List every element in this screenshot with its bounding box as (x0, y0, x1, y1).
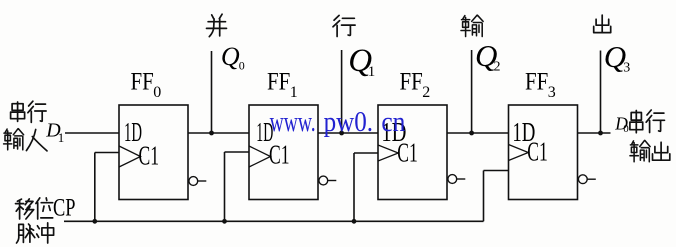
svg-text:C1: C1 (397, 137, 418, 167)
label CP (53, 194, 76, 221)
wire Q1 vertical tap (341, 50, 343, 133)
FF2 inverted output bubble (448, 175, 465, 184)
label 输 (output) (630, 141, 650, 162)
FF3 inverted output bubble (578, 175, 595, 184)
flip-flop FF0 box (119, 105, 188, 200)
node Q0 junction (209, 131, 214, 136)
label 行 (serial input) (28, 101, 46, 122)
FF2 clock edge-trigger triangle (378, 145, 398, 161)
label 并 (parallel) (207, 14, 227, 36)
label Q3 (604, 39, 631, 76)
wire FF1 Q to FF2 1D (318, 132, 378, 134)
FF3 clock edge-trigger triangle (509, 145, 529, 161)
label Q2 (475, 38, 501, 75)
node Q1 junction (339, 131, 344, 136)
FF2 pin label 1D (381, 117, 406, 147)
label 输 (461, 15, 483, 36)
svg-text:3: 3 (623, 60, 630, 75)
node CP junction 0 (92, 219, 97, 224)
node Q2 junction (469, 131, 474, 136)
FF2 pin label C1 (397, 137, 418, 167)
node CP junction 2 (352, 219, 357, 224)
FF1 pin label C1 (269, 140, 290, 170)
svg-text:FF: FF (525, 68, 548, 95)
FF0 inverted output bubble (189, 177, 206, 186)
svg-text:2: 2 (494, 60, 501, 75)
wire CP to FF0 C1 (95, 153, 119, 222)
svg-text:Q: Q (221, 42, 240, 71)
svg-text:C1: C1 (269, 140, 290, 170)
label 脉 (pulse) (17, 224, 35, 243)
FF1 pin label 1D (256, 117, 273, 147)
svg-text:0: 0 (153, 84, 161, 101)
label 行 (333, 15, 355, 36)
node Q3 junction (598, 131, 603, 136)
svg-text:pw0.: pw0. (324, 106, 374, 138)
svg-text:FF: FF (267, 68, 290, 95)
label D0 serial output pin (614, 114, 629, 135)
flip-flop FF3 box (509, 105, 578, 200)
svg-text:3: 3 (548, 84, 556, 101)
label 出 (594, 15, 611, 32)
FF0 pin label 1D (124, 117, 142, 147)
label 冲 (pulse) (37, 223, 54, 243)
FF1 inverted output bubble (319, 176, 336, 185)
FF3 pin label C1 (527, 136, 548, 166)
wire FF0 Q to FF1 1D (188, 132, 249, 134)
svg-text:cn: cn (381, 106, 405, 138)
svg-text:C1: C1 (527, 136, 548, 166)
svg-text:0: 0 (239, 58, 245, 72)
label FF3 (525, 68, 556, 101)
wire FF2 Q to FF3 1D (447, 132, 509, 134)
flip-flop FF2 box (378, 105, 447, 200)
wire FF3 Q to serial output D0 (578, 132, 611, 134)
label 入 (input) (26, 130, 47, 151)
FF3 pin label 1D (512, 117, 535, 147)
FF1 clock edge-trigger triangle (249, 146, 271, 167)
label FF2 (400, 68, 431, 101)
svg-text:C1: C1 (139, 140, 160, 170)
wire Q2 vertical tap (471, 50, 473, 133)
node CP junction 1 (222, 219, 227, 224)
svg-text:1: 1 (58, 130, 65, 145)
label FF0 (131, 68, 162, 101)
watermark www.pw0.cn (270, 106, 406, 138)
label 出 (output) (653, 142, 670, 160)
label 输 (input) (4, 129, 24, 150)
label 移 (shift) (16, 199, 34, 219)
wire serial input D1 to FF0 1D (65, 132, 119, 134)
label 串 (serial output) (630, 111, 643, 133)
wire Q3 vertical tap (600, 51, 602, 134)
wire CP to FF1 C1 (225, 152, 250, 221)
svg-text:1: 1 (290, 84, 298, 101)
svg-text:FF: FF (131, 68, 154, 95)
svg-text:FF: FF (400, 68, 423, 95)
label FF1 (267, 68, 298, 101)
svg-text:1: 1 (368, 64, 376, 80)
flip-flop FF1 box (249, 105, 318, 200)
label 位 (shift) (36, 198, 53, 219)
wire CP clock rail (64, 220, 484, 222)
svg-text:2: 2 (422, 84, 430, 101)
svg-text:0: 0 (623, 123, 629, 135)
FF0 pin label C1 (139, 140, 160, 170)
label D1 serial input pin (45, 120, 64, 145)
wire Q0 vertical tap (211, 51, 213, 133)
label Q0 (221, 42, 245, 72)
label Q1 (348, 43, 375, 80)
svg-text:www.: www. (270, 106, 316, 138)
label 串 (serial input) (11, 102, 25, 121)
label 行 (serial output) (646, 110, 664, 133)
svg-text:CP: CP (53, 194, 76, 221)
wire CP to FF3 C1 (484, 171, 509, 222)
wire CP to FF2 C1 (354, 153, 378, 221)
FF0 clock edge-trigger triangle (119, 146, 141, 167)
